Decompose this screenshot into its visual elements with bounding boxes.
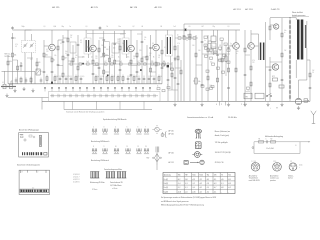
svg-text:0,3: 0,3 xyxy=(133,58,135,60)
view symbol xyxy=(161,132,164,137)
svg-text:2×AD 79: 2×AD 79 xyxy=(271,8,280,11)
note footnote 2 xyxy=(161,200,190,203)
coupling loop top wire xyxy=(254,141,300,143)
svg-text:Ug (V): Ug (V) xyxy=(164,191,169,193)
switch bank S1 contact row xyxy=(50,94,158,98)
svg-text:2k2: 2k2 xyxy=(219,50,221,52)
connector jack 3 labels xyxy=(290,161,292,163)
svg-text:T6a: T6a xyxy=(207,175,210,177)
detector RC network xyxy=(175,35,198,40)
ground near antenna xyxy=(5,89,16,98)
svg-text:AF 126: AF 126 xyxy=(155,6,163,9)
decoupling column stage1b xyxy=(62,35,67,84)
bias column stage2e xyxy=(119,38,122,84)
svg-text:2k2: 2k2 xyxy=(56,76,58,78)
resistor R1 xyxy=(12,53,17,57)
coil L7 winding diagram (row 1) xyxy=(144,126,149,134)
note caption circle data xyxy=(110,182,123,190)
svg-text:AF 126: AF 126 xyxy=(130,6,138,9)
coil L10 winding diagram (row 2) xyxy=(114,146,119,154)
telescopic antenna symbol xyxy=(311,111,316,124)
svg-text:-1,0: -1,0 xyxy=(192,187,195,189)
svg-text:Werte bei Batt.: Werte bei Batt. xyxy=(292,11,304,14)
IF filter former drawing 1 xyxy=(90,172,95,179)
svg-text:100: 100 xyxy=(198,50,200,52)
note coil data list xyxy=(73,174,80,184)
svg-text:buchse: buchse xyxy=(288,178,293,180)
wire T5 emitter column xyxy=(235,49,237,101)
note label AC151 AC153 xyxy=(169,161,174,164)
svg-text:-0,1: -0,1 xyxy=(199,187,202,189)
svg-text:-1,2: -1,2 xyxy=(192,183,195,185)
svg-text:-1,1: -1,1 xyxy=(207,187,210,189)
wire det area column b xyxy=(180,60,182,101)
wire speaker feed xyxy=(299,80,307,98)
wire main bottom bus xyxy=(42,100,310,102)
svg-text:T/B Tab. gelb/gelb: T/B Tab. gelb/gelb xyxy=(215,142,228,144)
svg-text:220: 220 xyxy=(117,39,119,41)
svg-text:AC 151: AC 151 xyxy=(233,8,241,11)
wire input column xyxy=(12,33,14,84)
svg-text:-0,1: -0,1 xyxy=(207,191,210,193)
bias column stage3c xyxy=(146,45,148,84)
svg-text:Meßsender-Ankopplung: Meßsender-Ankopplung xyxy=(265,135,283,138)
svg-text:-0,2: -0,2 xyxy=(199,183,202,185)
svg-text:NTC: NTC xyxy=(272,76,275,78)
svg-text:-0,7: -0,7 xyxy=(214,187,217,189)
wire top supply rail xyxy=(13,29,241,31)
wire T4 collector xyxy=(155,30,157,44)
svg-text:L4 3,2 5 9: L4 3,2 5 9 xyxy=(73,179,80,181)
voltage table grid xyxy=(163,173,235,194)
decoupling column stage1a xyxy=(57,40,60,84)
variable capacitor C2b xyxy=(30,43,34,84)
svg-text:-0,15: -0,15 xyxy=(192,191,195,193)
coupling resistor Ra xyxy=(259,139,264,143)
PCB wiring view solder strip xyxy=(20,189,49,192)
driver transformer Tr1 secondary xyxy=(263,43,266,61)
wire top output link xyxy=(270,17,296,19)
note caption IF coil data xyxy=(90,181,105,191)
crystal diode symbol xyxy=(147,153,162,166)
svg-text:220: 220 xyxy=(151,61,153,63)
svg-text:4,7: 4,7 xyxy=(105,61,107,63)
svg-text:100: 100 xyxy=(192,45,194,47)
svg-text:4k7: 4k7 xyxy=(202,26,204,28)
connector jack 2 labels xyxy=(273,161,276,163)
note pin text 3 xyxy=(215,142,228,144)
ceramic filter F1 box xyxy=(103,42,109,56)
transistor label AF125 (stage 2) xyxy=(91,6,99,9)
svg-text:AF 125: AF 125 xyxy=(52,6,60,9)
audio column c xyxy=(201,30,204,101)
earphone jack xyxy=(304,99,309,102)
driver transformer Tr1 primary xyxy=(259,43,262,61)
transistor T8 AC153 output lower xyxy=(272,64,278,70)
phase splitter column xyxy=(269,57,272,101)
svg-text:0,3: 0,3 xyxy=(149,55,151,57)
svg-text:-0,05: -0,05 xyxy=(178,191,181,193)
svg-text:Zwischenkreis 2B: Zwischenkreis 2B xyxy=(110,182,123,184)
note label AF125 pair xyxy=(169,130,174,136)
note jack 3 caption xyxy=(288,175,294,179)
driver column xyxy=(244,30,247,101)
component value labels xyxy=(15,30,315,74)
svg-text:1k5: 1k5 xyxy=(158,55,160,57)
svg-text:25V: 25V xyxy=(272,67,274,69)
svg-text:-3,1: -3,1 xyxy=(214,179,217,181)
thermistor R31 xyxy=(272,76,278,81)
svg-text:-5,8: -5,8 xyxy=(185,179,188,181)
svg-text:T20: T20 xyxy=(228,175,231,177)
svg-text:10k: 10k xyxy=(20,63,22,65)
wire stage1 top link xyxy=(58,39,63,41)
svg-text:30n: 30n xyxy=(65,51,67,53)
svg-text:10k: 10k xyxy=(54,55,56,57)
svg-text:T66: T66 xyxy=(178,175,181,177)
svg-text:4k7: 4k7 xyxy=(65,58,67,60)
wire T3 collector xyxy=(130,30,132,45)
svg-text:Bestückung LW-Bereich: Bestückung LW-Bereich xyxy=(91,159,109,162)
battery BAT1 cell 1 xyxy=(244,90,252,99)
svg-text:0,3: 0,3 xyxy=(158,57,160,59)
svg-text:6,8k: 6,8k xyxy=(54,26,57,28)
svg-text:4,7: 4,7 xyxy=(138,61,140,63)
coil L12 winding diagram (row 2) xyxy=(136,146,141,154)
note jack 2 caption xyxy=(270,174,279,182)
oscillator coil symbol xyxy=(156,147,159,153)
svg-text:12k: 12k xyxy=(100,57,102,59)
svg-text:13: 13 xyxy=(145,146,147,148)
wire T1 base feed xyxy=(44,45,49,47)
svg-text:0,5: 0,5 xyxy=(189,26,191,28)
switch contact stems xyxy=(44,87,151,91)
voltage table text xyxy=(164,175,231,194)
svg-text:L3: L3 xyxy=(41,71,43,73)
IF transformer Fi1 xyxy=(84,30,91,58)
svg-text:-1,1: -1,1 xyxy=(185,187,188,189)
switch bank S1 outline xyxy=(49,92,161,102)
svg-text:ZF 30,8 / 30: ZF 30,8 / 30 xyxy=(215,162,224,164)
wire T6 emitter column xyxy=(250,49,252,101)
IF filter former drawing 5 xyxy=(117,172,122,179)
note footnote 1 xyxy=(161,196,217,199)
transistor label AF126 (stage 4) xyxy=(155,6,163,9)
capacitor C28 top xyxy=(99,26,102,30)
svg-text:460: 460 xyxy=(104,47,106,49)
coil L8 winding diagram (row 2) xyxy=(92,146,97,154)
svg-text:Spulenbestückung MW-Bereich: Spulenbestückung MW-Bereich xyxy=(103,118,127,121)
coil L4 winding diagram (row 1) xyxy=(114,126,119,134)
wire feedback top xyxy=(307,59,310,61)
resistor R32 xyxy=(279,85,284,88)
wire AGC drop xyxy=(183,24,185,30)
note caption SW coils xyxy=(91,140,109,143)
svg-text:L5 1,8 3 6: L5 1,8 3 6 xyxy=(73,182,80,184)
svg-text:0,2: 0,2 xyxy=(133,26,135,28)
transistor label AF126 (stage 3) xyxy=(130,6,138,9)
IF filter former drawing 3 xyxy=(106,172,111,179)
wire inter-stage links xyxy=(13,34,283,72)
svg-text:-1,3: -1,3 xyxy=(185,183,188,185)
coupling loop bottom wire xyxy=(254,152,300,154)
svg-text:4,7k: 4,7k xyxy=(15,44,18,46)
coil L13 winding diagram (row 2) xyxy=(144,146,149,154)
svg-text:10n: 10n xyxy=(210,62,212,64)
svg-text:470: 470 xyxy=(129,76,131,78)
svg-text:10k: 10k xyxy=(111,55,113,57)
svg-text:1k5: 1k5 xyxy=(75,55,77,57)
ground tuning xyxy=(22,87,34,92)
svg-text:4,7k: 4,7k xyxy=(82,57,85,59)
svg-text:T204: T204 xyxy=(199,175,202,177)
audio column e xyxy=(216,30,219,101)
transistor T4 AF126 xyxy=(153,44,160,51)
svg-text:25V: 25V xyxy=(95,58,97,60)
svg-text:104: 104 xyxy=(113,48,115,50)
IF transformer Fi3 ratio detector xyxy=(165,30,172,70)
transistor label AF125 (stage 1) xyxy=(52,6,60,9)
diode D1 detector xyxy=(174,30,177,101)
svg-text:100: 100 xyxy=(106,49,108,51)
svg-text:0,1: 0,1 xyxy=(272,65,274,67)
feedback column xyxy=(309,60,312,101)
transistor T2 AF125 xyxy=(90,45,97,52)
IF filter former drawing 6 xyxy=(122,172,127,179)
volume potentiometer P1 xyxy=(193,35,201,101)
svg-text:33k: 33k xyxy=(46,55,49,57)
bias column stage3a xyxy=(136,40,139,84)
svg-text:AC 153: AC 153 xyxy=(245,8,253,11)
coupling terminal label xyxy=(296,145,297,147)
input filter parts xyxy=(15,77,43,84)
wire lower ground rail xyxy=(64,109,152,111)
PCB top view box xyxy=(19,133,49,157)
svg-text:1n: 1n xyxy=(177,35,179,37)
transistor case drawing 4 xyxy=(184,160,204,164)
svg-text:-1,2: -1,2 xyxy=(178,187,181,189)
svg-text:R2: R2 xyxy=(271,139,273,141)
wire switch drops xyxy=(64,102,144,110)
svg-text:25V: 25V xyxy=(117,41,119,43)
svg-text:10k: 10k xyxy=(198,81,201,83)
coil L11 winding diagram (row 2) xyxy=(125,146,130,154)
audio column g xyxy=(227,30,230,101)
coil L2 winding diagram (row 1) xyxy=(92,126,97,134)
svg-text:10k: 10k xyxy=(14,55,17,57)
svg-text:10: 10 xyxy=(115,146,117,148)
note pin text 4 xyxy=(215,152,231,154)
coupling loop right edge xyxy=(299,142,301,154)
svg-text:Ansicht der Verdrahtungsseite: Ansicht der Verdrahtungsseite xyxy=(17,164,40,167)
transistor case drawing 2 xyxy=(195,142,201,149)
wire T7 base xyxy=(270,24,274,26)
transistor T7 AC153 output upper xyxy=(274,24,279,29)
wire IF top link 2 xyxy=(123,30,125,34)
neutralization box xyxy=(112,43,119,53)
wire T1 collector xyxy=(51,30,53,44)
svg-text:470: 470 xyxy=(67,76,69,78)
svg-text:R = 2,4 kΩ: R = 2,4 kΩ xyxy=(267,148,275,150)
transistor label 2xAC153 (output pair) xyxy=(271,8,280,11)
svg-text:10n: 10n xyxy=(119,26,121,28)
PCB wiring view top contacts xyxy=(21,170,46,173)
svg-text:0,3: 0,3 xyxy=(15,46,17,48)
tuning capacitor C2 gang box xyxy=(22,41,36,53)
svg-text:-1,3: -1,3 xyxy=(207,183,210,185)
svg-text:0,3: 0,3 xyxy=(80,42,82,44)
svg-text:10k: 10k xyxy=(247,45,249,47)
wire front-end supply rail xyxy=(8,83,162,85)
svg-text:Telefon-: Telefon- xyxy=(288,175,294,177)
note caption wiring view xyxy=(17,164,40,167)
svg-text:L1: L1 xyxy=(2,82,4,84)
svg-text:4,7k: 4,7k xyxy=(177,43,180,45)
svg-text:1k5: 1k5 xyxy=(122,43,124,45)
note IF frequency xyxy=(228,117,237,119)
bias column stage2a xyxy=(98,40,101,84)
wire left bus drop xyxy=(41,98,43,110)
node input junction xyxy=(11,82,14,85)
svg-text:Masse (Gehäuse) am: Masse (Gehäuse) am xyxy=(215,131,231,133)
resistor R30 top xyxy=(269,18,271,40)
svg-text:0,1: 0,1 xyxy=(205,45,207,47)
svg-text:220: 220 xyxy=(210,45,212,47)
ground speaker xyxy=(297,106,300,110)
svg-text:0,1: 0,1 xyxy=(60,43,62,45)
svg-text:46: 46 xyxy=(142,26,144,28)
svg-text:4,7k: 4,7k xyxy=(252,60,255,62)
svg-text:nach DIN 41529: nach DIN 41529 xyxy=(249,180,260,182)
transistor label AC151 (driver) xyxy=(233,8,241,11)
wire T4 emitter column xyxy=(155,51,157,84)
svg-text:10k: 10k xyxy=(187,35,189,37)
svg-text:0,1: 0,1 xyxy=(91,57,93,59)
svg-text:0,1: 0,1 xyxy=(44,26,46,28)
transistor T3 AF126 xyxy=(128,45,135,52)
decoupling column stage1e xyxy=(77,35,80,84)
svg-text:+: + xyxy=(270,108,271,110)
component labels above supply rail xyxy=(22,26,230,28)
svg-text:1n5: 1n5 xyxy=(174,26,176,28)
PCB top view coil bar xyxy=(39,135,41,146)
capacitor row above supply rail xyxy=(46,75,162,84)
bass network parts xyxy=(201,85,214,90)
transistor T5 AC151 preamp xyxy=(233,43,240,50)
note switch bank caption xyxy=(66,110,104,113)
wire coupling strip with resistors xyxy=(68,61,172,65)
wire T8 base xyxy=(266,66,273,68)
wire AGC rail xyxy=(184,23,240,25)
bias column stage3d xyxy=(149,35,152,84)
svg-text:L3 2,1 4 7: L3 2,1 4 7 xyxy=(73,176,80,178)
IF filter former drawing 4 xyxy=(111,172,116,179)
svg-text:47k: 47k xyxy=(219,45,221,47)
svg-text:Ub (V): Ub (V) xyxy=(164,183,169,185)
coupling box 2 xyxy=(211,47,216,53)
output bias column xyxy=(281,18,284,101)
svg-text:25p: 25p xyxy=(213,26,215,28)
det area links xyxy=(162,62,182,90)
coil L6 winding diagram (row 1) xyxy=(136,126,141,134)
ground symbols along bus xyxy=(173,103,283,107)
coil L5 winding diagram (row 1) xyxy=(125,126,130,134)
svg-text:Gesamtstromaufnahme ca. 9,5 mA: Gesamtstromaufnahme ca. 9,5 mA xyxy=(187,116,214,119)
transistor case drawing 3 xyxy=(192,152,202,158)
IF filter former drawing 2 xyxy=(95,172,100,179)
audio column d xyxy=(167,35,209,101)
ratio detector output parts xyxy=(157,85,170,92)
svg-text:0,1: 0,1 xyxy=(228,26,230,28)
output transformer Tr2 primary xyxy=(296,18,299,78)
svg-text:86: 86 xyxy=(161,26,163,28)
note measurement conditions xyxy=(292,11,309,17)
svg-text:E: E xyxy=(296,145,297,147)
coupling loop left edge xyxy=(252,142,254,154)
node output rail top xyxy=(289,16,292,19)
note caption coupling box xyxy=(265,135,283,138)
transistor T1 AF125 xyxy=(49,44,56,51)
bias divider chain xyxy=(289,18,291,102)
svg-text:10n: 10n xyxy=(135,76,137,78)
output transformer Tr2 core xyxy=(299,20,301,60)
bias column stage2c xyxy=(109,46,111,84)
svg-text:12: 12 xyxy=(138,146,140,148)
trimmer symbol xyxy=(153,125,162,134)
note caption coil overview xyxy=(103,118,127,121)
note pin text 1 xyxy=(215,131,231,133)
svg-text:Bestückung SW-Bereich: Bestückung SW-Bereich xyxy=(91,140,109,143)
svg-text:1 2: 1 2 xyxy=(290,161,292,163)
bias column stage3b xyxy=(141,31,144,84)
coupling output arrow xyxy=(300,141,310,142)
wire oscillator rail xyxy=(2,71,36,84)
svg-text:220: 220 xyxy=(149,53,151,55)
svg-text:-0,9: -0,9 xyxy=(214,183,217,185)
svg-text:120: 120 xyxy=(38,62,40,64)
wire left bias column xyxy=(7,55,12,84)
svg-text:-8,3: -8,3 xyxy=(228,183,231,185)
wire IF top link xyxy=(87,33,126,35)
bias column stage2d xyxy=(113,31,116,84)
bias column stage2b xyxy=(103,31,108,84)
capacitor C4 top xyxy=(11,26,14,30)
svg-text:1/4 B/L 27 PR (34-1)B: 1/4 B/L 27 PR (34-1)B xyxy=(215,152,231,154)
svg-text:0,3: 0,3 xyxy=(65,53,67,55)
svg-text:-0,1: -0,1 xyxy=(199,191,202,193)
wire T5 collector xyxy=(235,30,237,43)
svg-text:2k2: 2k2 xyxy=(136,57,138,59)
svg-text:1n5: 1n5 xyxy=(87,61,89,63)
svg-text:-4,3: -4,3 xyxy=(192,179,195,181)
audio column a xyxy=(183,30,186,101)
PCB wiring view label xyxy=(32,187,34,189)
svg-text:Spannung: Spannung xyxy=(164,175,171,177)
wire antenna to input xyxy=(5,71,13,84)
wire det area column a xyxy=(177,45,180,101)
svg-text:-1,1: -1,1 xyxy=(221,183,224,185)
wire T1 emitter column xyxy=(51,51,56,84)
svg-text:68k: 68k xyxy=(163,61,165,63)
AF coupling cluster xyxy=(202,36,230,54)
svg-text:AF 125: AF 125 xyxy=(91,6,99,9)
junction markers xyxy=(216,102,247,106)
mid band value labels xyxy=(82,57,155,59)
wire T2 collector xyxy=(92,30,94,45)
svg-text:2p: 2p xyxy=(14,38,16,40)
svg-text:-0,9: -0,9 xyxy=(221,187,224,189)
note jack 3 side label xyxy=(299,165,303,169)
